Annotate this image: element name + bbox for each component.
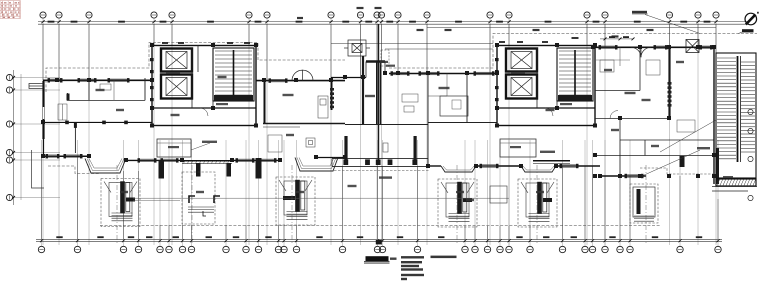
center duct complex [344, 40, 370, 56]
dimension numbers bottom [56, 236, 702, 238]
left vertical dimension line [13, 70, 15, 205]
windows: left wing top [50, 79, 60, 82]
top dimension line 3 right [427, 26, 716, 28]
north arrow label [742, 29, 754, 32]
porch x295.5: dark wall bar [295, 180, 300, 212]
left elevator shaft 1 [161, 49, 192, 72]
center small door rect [383, 143, 388, 152]
windows: right wing top [601, 46, 615, 49]
left wing column [67, 94, 70, 101]
left stair center rail [233, 50, 235, 100]
center top wall left part [331, 77, 366, 79]
mid-right bottom edge [428, 165, 441, 167]
left elevator shaft 2 [161, 75, 192, 99]
red approval stamp [0, 1, 20, 19]
stair leader [660, 120, 716, 152]
grid: horizontal axis stubs left [13, 78, 60, 198]
left end bottom edge [43, 155, 89, 157]
terrace edge lines [133, 199, 180, 201]
grid: darker extension segments top [43, 25, 716, 81]
mid-right storage room [440, 96, 468, 116]
center label smudge [379, 176, 392, 178]
porch x537.5: hatch arm [543, 198, 553, 202]
dark mark above title [376, 240, 382, 244]
mid-left unit bottom edge [232, 159, 280, 161]
bay window 521-556 [521, 166, 556, 172]
bottom dimension line 2 [36, 241, 722, 243]
dashed overhang outline [46, 34, 757, 226]
hatched strip right wing [668, 82, 672, 107]
windows: mid-left bottom [238, 159, 252, 162]
outer wall: left end heavy [42, 81, 44, 139]
grid: darker extension segments bottom [42, 156, 719, 239]
axis bubbles top [40, 12, 719, 18]
dimension ticks bottom [40, 239, 720, 242]
left stair landing dark [214, 95, 253, 101]
small shaft right wing [686, 40, 699, 53]
right core label [540, 151, 555, 153]
ground line across porches [133, 197, 509, 199]
windows: mid-left top [271, 79, 285, 82]
porch2 steps [188, 207, 214, 212]
axis bubbles bottom [38, 246, 721, 252]
windows: left end bottom [48, 155, 57, 158]
mid-right top wall [389, 73, 497, 75]
stair level label [723, 176, 733, 178]
columns on y122 wall [65, 121, 128, 125]
right storage room below core [500, 139, 536, 157]
center slab columns [343, 159, 417, 165]
lobby label + door arc left core [216, 103, 228, 105]
left storage room below core [157, 139, 191, 157]
porch x457.5: hatch arm [463, 198, 473, 202]
ticks on left core wall [150, 58, 154, 101]
right wing interior extras [600, 47, 695, 132]
left end corner steps [32, 150, 45, 188]
top dimension line 1 [38, 21, 748, 23]
mid-right wall y122.5 [428, 122, 497, 124]
porch x295.5: dashed outline [276, 177, 315, 225]
dimension numbers top [48, 21, 711, 23]
porch x457.5: roof wedges [441, 182, 474, 217]
right porch slab bump [533, 160, 570, 162]
left wing partition verticals [68, 78, 146, 100]
center duct heavy bar [366, 60, 385, 62]
mid-right interior extras [402, 74, 447, 113]
small structure between right porches [490, 186, 507, 203]
windows: mid-right bottom [482, 165, 496, 168]
elevator car X 1 [166, 52, 187, 69]
walkway lines right end [712, 187, 757, 192]
right wing dim ticks y38.9 [604, 38, 635, 41]
right core corridor wall [497, 107, 595, 109]
left wing bottom edge [126, 159, 182, 161]
left end window gap [42, 107, 45, 119]
porch x457.5: dark wall bar [457, 182, 462, 214]
porch2 L-label [203, 211, 206, 216]
porch x120.5: dark wall bar [120, 181, 125, 213]
windows: mid-right top [393, 72, 407, 75]
porch x120.5: steps [112, 213, 133, 221]
outdoor stair stringers [737, 56, 739, 162]
porch2 under left core: hanging columns [196, 163, 231, 177]
windows: right wing bottom [627, 175, 641, 178]
outer wall: left wing top [43, 79, 152, 81]
right porch entry wall [680, 156, 685, 167]
extra dim marks top [297, 7, 654, 38]
canopy thin line above center [331, 42, 493, 44]
center dashed below slab [330, 170, 430, 172]
AC platform left of end wall [29, 84, 43, 89]
outdoor stair treads [717, 58, 755, 159]
hatched strip mid-left [330, 88, 334, 108]
left wing major wall y122.4 [43, 121, 152, 123]
porch x537.5: light bar [543, 183, 547, 212]
porch x457.5: steps [449, 214, 470, 222]
center party wall B [378, 24, 380, 160]
mid-left bay window bottom [295, 158, 338, 172]
elevator car X 2 [166, 78, 187, 96]
dim ticks above left core [162, 42, 250, 44]
porch x295.5: steps [287, 212, 308, 220]
kitchen counter mid-left [306, 96, 328, 147]
area statistics block col1 [401, 256, 457, 281]
lobby label + door arc right core [560, 103, 572, 105]
wall stubs below building [159, 158, 262, 179]
left core inner verticals [192, 45, 213, 108]
right stair center rail [574, 50, 576, 100]
bottom edge 556-600 [556, 165, 600, 167]
dim ticks above right core [499, 37, 579, 43]
right end dashed steps [640, 168, 713, 174]
elevator label smudge [166, 72, 180, 74]
bay window 441-476 [441, 166, 476, 172]
right end porch [630, 184, 658, 223]
porch x120.5: dashed outline [101, 179, 140, 227]
porch x295.5: hatch arm [283, 196, 295, 200]
floor-above line center-right [385, 48, 493, 50]
axis bubbles right stair [748, 109, 753, 200]
porch x120.5: light bar [126, 183, 130, 212]
center porch columns [344, 136, 416, 162]
bottom dimension line 1 [36, 239, 722, 241]
mid-right verticals [428, 74, 467, 167]
left stair well [213, 48, 254, 101]
right stair landing dark [558, 95, 592, 101]
porch x295.5: light bar [301, 181, 305, 210]
right elevator car X 1 [511, 52, 532, 69]
porch x295.5: roof wedges [279, 180, 312, 215]
structural columns [41, 43, 716, 178]
left core corridor wall [152, 107, 256, 109]
right elevator label [511, 72, 525, 74]
center text smudges [380, 61, 388, 63]
mid-left lower walls [263, 124, 345, 128]
right wing top wall [593, 46, 714, 48]
center porch slab band [332, 159, 428, 167]
ticks on right core wall [495, 58, 499, 101]
right elevator shaft 2 [506, 75, 537, 99]
dimension ticks top [41, 20, 717, 23]
porch x120.5: hatch arm [126, 198, 136, 202]
porch x457.5: dashed outline [438, 179, 477, 227]
outdoor stair bottom hatch band [716, 179, 756, 186]
porch2 corner brackets [189, 196, 220, 203]
left core outline [152, 46, 256, 126]
left porch slab bump [182, 160, 232, 162]
porch x120.5: roof wedges [104, 182, 137, 217]
left end lower wall [43, 139, 45, 156]
left wing partition y100 [67, 99, 145, 101]
leader to canopy label right [642, 150, 700, 176]
right wing heavy wall [668, 48, 670, 118]
room labels [96, 61, 685, 201]
mid-left heavy verticals [264, 80, 266, 124]
drawing title [366, 256, 389, 261]
right end wall [713, 47, 715, 184]
porch x537.5: roof wedges [521, 182, 554, 217]
porch x537.5: dark wall bar [537, 182, 542, 214]
left wing interior extras [58, 80, 114, 120]
windows: left wing bottom [140, 159, 154, 162]
center dashed duct box [381, 50, 389, 66]
center duct connectors [366, 62, 385, 78]
porch x537.5: dashed outline [518, 179, 557, 227]
center mid wall [345, 124, 428, 126]
top dim line 4 right-wing stub [600, 38, 633, 40]
right wing bottom edge [600, 175, 646, 177]
grid: vertical axis lines light [42, 19, 719, 247]
right stair well [557, 48, 593, 101]
outer wall: mid-left top [256, 80, 345, 82]
right core inner verticals [537, 48, 557, 108]
roofline label top right [632, 11, 647, 14]
porch2 dashed outline [182, 172, 215, 224]
top dimension line 2 [38, 23, 748, 25]
area statistics block col2 [431, 256, 457, 259]
outdoor stair structure [716, 53, 756, 178]
mid-left bedroom furniture [268, 135, 282, 152]
left wing lower partition vertical [74, 122, 76, 153]
porch x537.5: steps [529, 214, 550, 222]
center party wall A [362, 56, 364, 124]
right wing door arc [610, 111, 618, 119]
right elevator shaft 1 [506, 49, 537, 72]
right wing partitions [595, 47, 714, 176]
right elevator car X 2 [511, 78, 532, 96]
storage leader + label [191, 143, 210, 150]
axis bubbles left [6, 74, 12, 200]
porch x457.5: light bar [463, 183, 467, 212]
porch axis dashed drops [117, 165, 646, 244]
right core outline [497, 46, 595, 126]
right wing lintel line [596, 59, 630, 61]
left wing bay window [85, 159, 126, 174]
north arrow [745, 13, 757, 25]
entrance double door left unit [292, 70, 313, 81]
right wing entrance door [631, 47, 651, 57]
